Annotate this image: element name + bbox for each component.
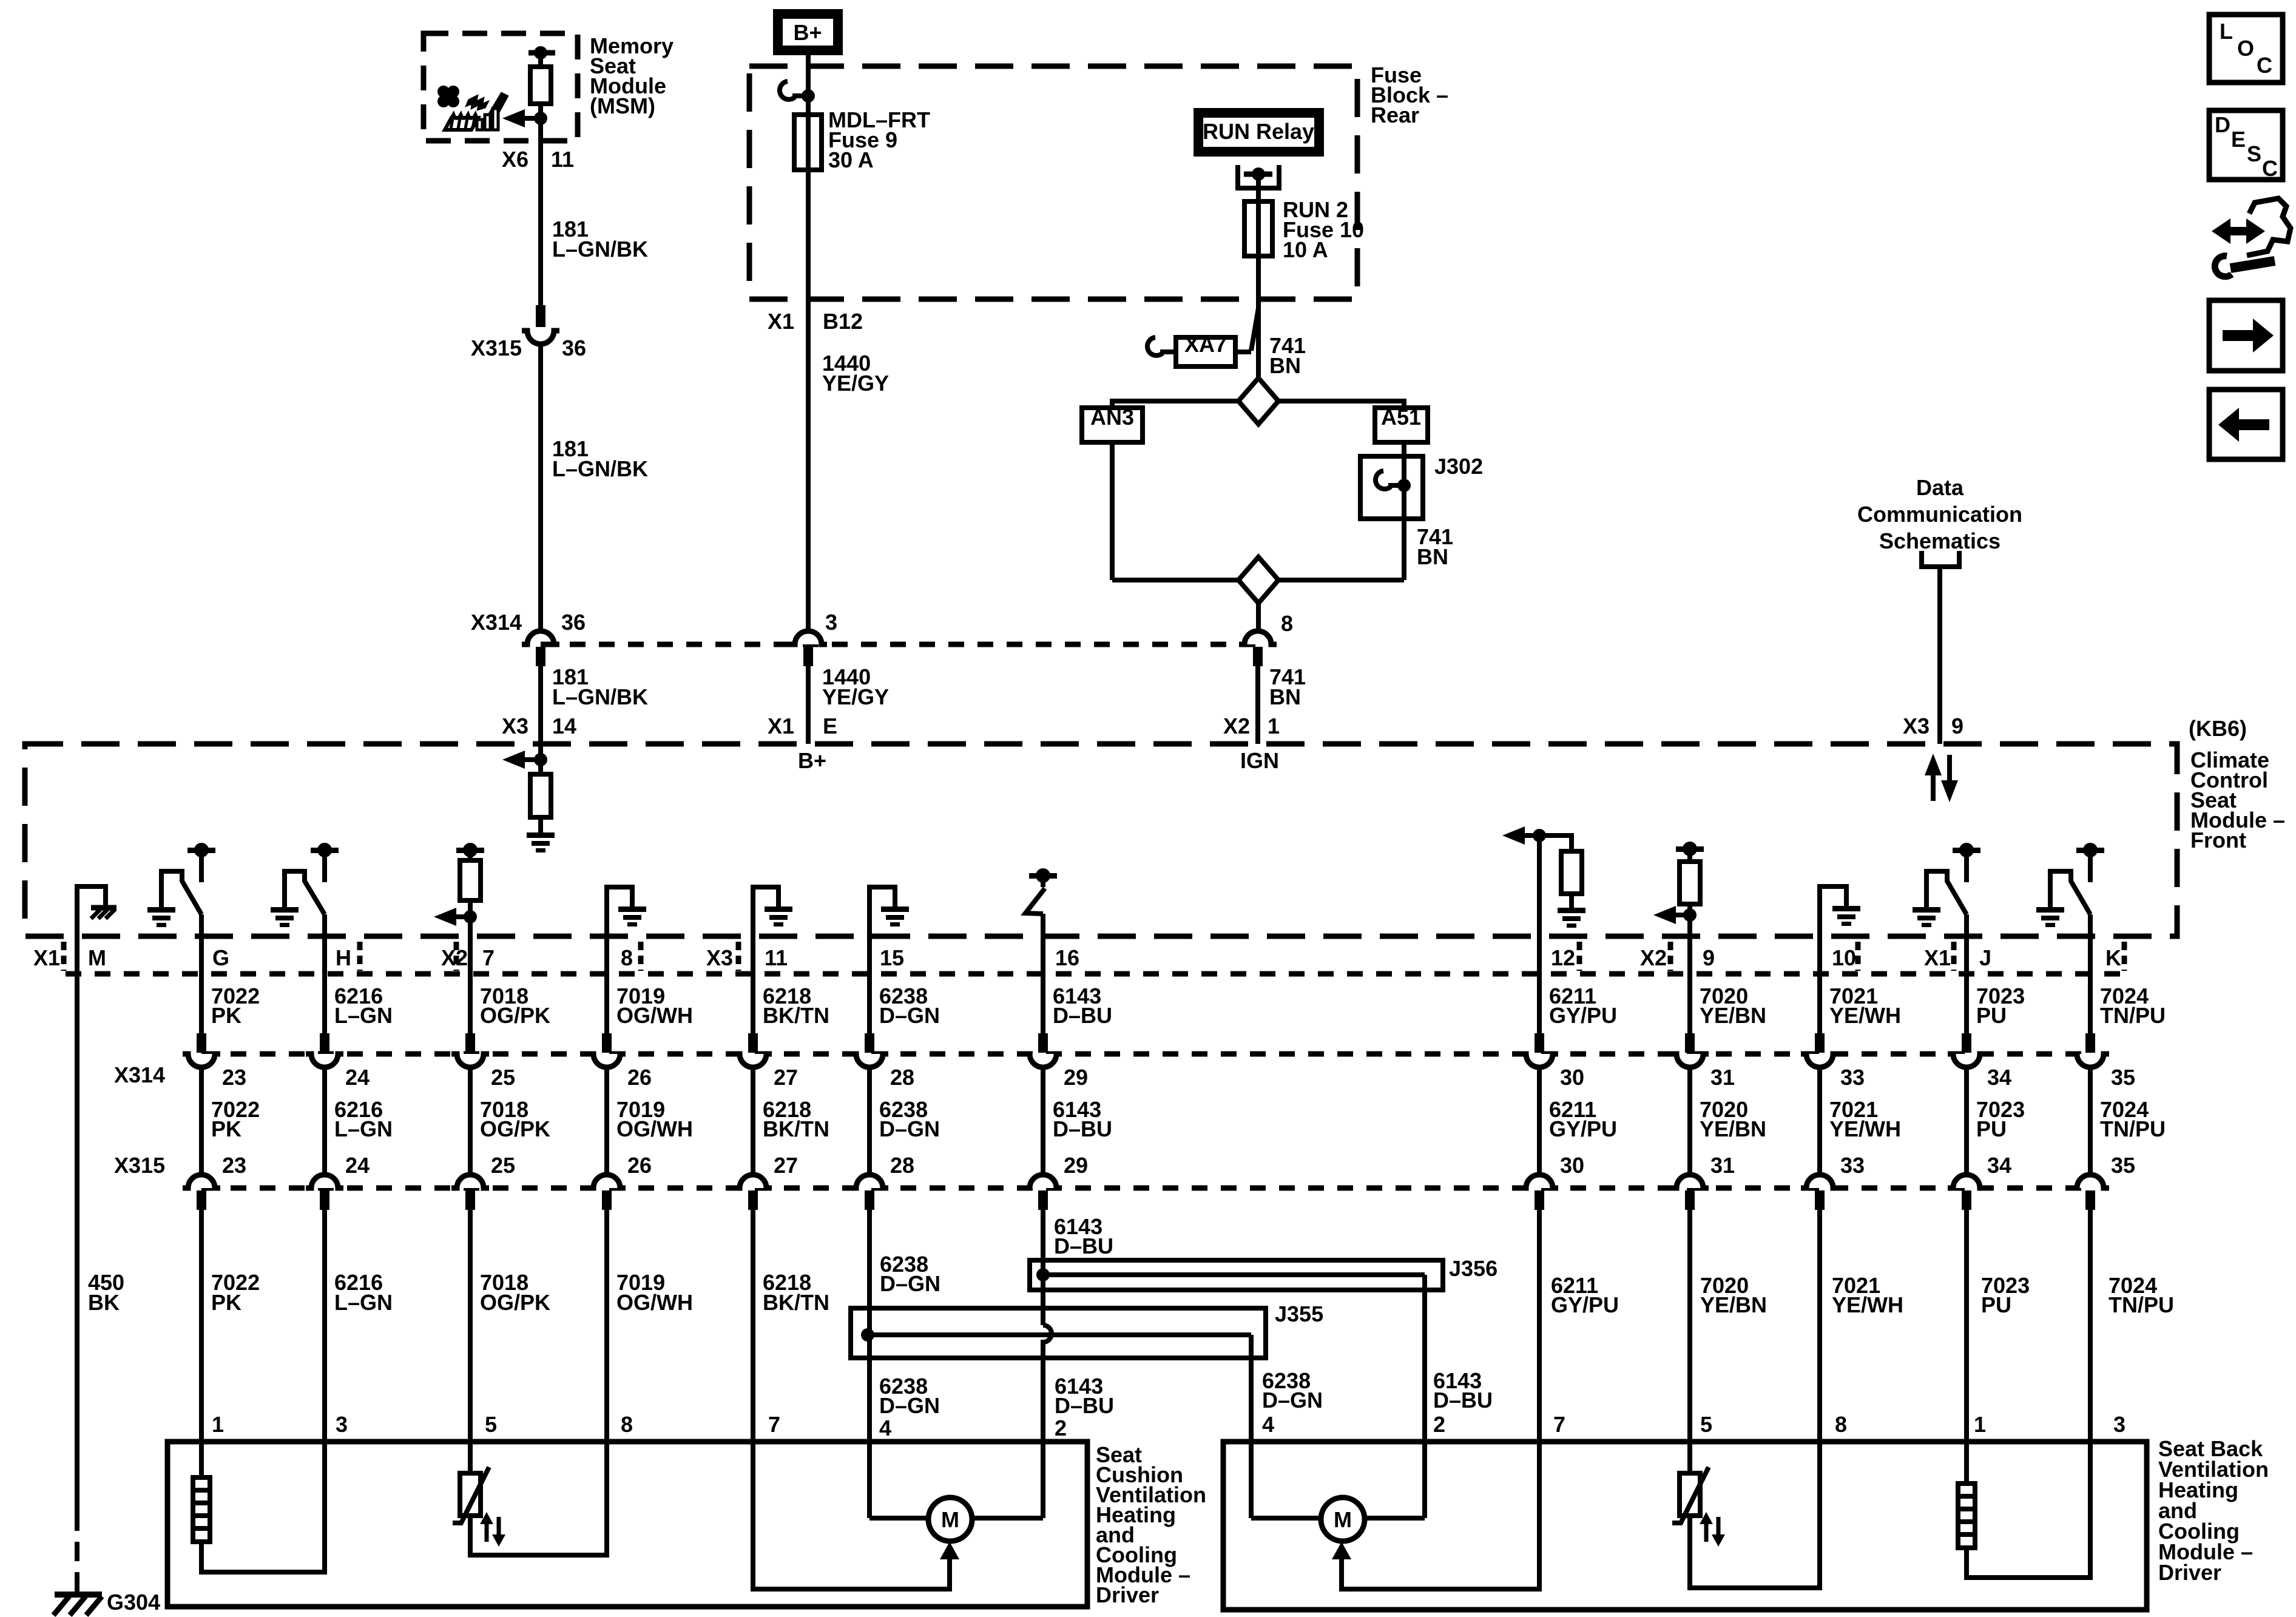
connector X314 pin 31 bbox=[1685, 1033, 1695, 1053]
svg-text:L–GN: L–GN bbox=[334, 1290, 393, 1315]
connector X315 pin 36 (in-line) bbox=[536, 305, 545, 327]
svg-text:35: 35 bbox=[2111, 1065, 2135, 1090]
svg-text:BK/TN: BK/TN bbox=[763, 1116, 829, 1141]
connector X314 pin 28 bbox=[865, 1033, 874, 1053]
svg-text:X314: X314 bbox=[114, 1062, 165, 1087]
svg-text:36: 36 bbox=[562, 336, 586, 360]
internal: pin 9 resistor with output arrow bbox=[1676, 846, 1704, 852]
svg-text:(MSM): (MSM) bbox=[590, 93, 655, 118]
svg-text:3: 3 bbox=[825, 610, 837, 635]
power symbol B+ bbox=[778, 14, 838, 50]
X314 connector row dotted line bbox=[201, 1052, 2090, 1057]
svg-text:L: L bbox=[2220, 19, 2233, 44]
svg-text:X314: X314 bbox=[471, 610, 522, 635]
svg-text:RUN Relay: RUN Relay bbox=[1203, 119, 1314, 144]
internal: pin 10 to ground bbox=[1820, 886, 1846, 936]
svg-text:12: 12 bbox=[1551, 945, 1575, 970]
svg-text:11: 11 bbox=[765, 945, 788, 970]
connector X314 pin 27 bbox=[748, 1033, 758, 1053]
heater element pins 1-3 bbox=[199, 1442, 204, 1477]
svg-text:YE/BN: YE/BN bbox=[1700, 1003, 1766, 1028]
svg-text:35: 35 bbox=[2111, 1153, 2135, 1178]
internal: pin 8 to ground bbox=[607, 887, 632, 936]
svg-text:B+: B+ bbox=[798, 748, 826, 773]
wire 450 BK pin M to G304 bbox=[75, 936, 79, 1511]
svg-text:34: 34 bbox=[1987, 1065, 2011, 1090]
svg-text:X1: X1 bbox=[1924, 945, 1951, 970]
svg-text:8: 8 bbox=[1835, 1412, 1847, 1437]
internal: pin H switch to ground bbox=[271, 907, 299, 913]
internal: pin 12 resistor to ground with arrow bbox=[1533, 829, 1546, 842]
svg-text:BK/TN: BK/TN bbox=[763, 1003, 829, 1028]
svg-text:L–GN/BK: L–GN/BK bbox=[552, 456, 648, 481]
svg-text:X6: X6 bbox=[502, 147, 528, 172]
svg-text:C: C bbox=[2262, 156, 2278, 181]
icon LOC bbox=[2209, 15, 2283, 83]
svg-text:Schematics: Schematics bbox=[1879, 528, 2001, 553]
svg-text:Rear: Rear bbox=[1371, 103, 1419, 127]
internal: pin M wire to chassis ground bbox=[77, 886, 106, 936]
svg-text:26: 26 bbox=[627, 1153, 652, 1178]
svg-text:BN: BN bbox=[1269, 353, 1301, 378]
svg-text:28: 28 bbox=[890, 1065, 914, 1090]
X315 connector row dotted line bbox=[201, 1186, 2090, 1191]
svg-text:D–BU: D–BU bbox=[1054, 1234, 1113, 1258]
svg-text:8: 8 bbox=[621, 945, 633, 970]
ground G304 bbox=[55, 1592, 102, 1598]
svg-text:J355: J355 bbox=[1275, 1301, 1323, 1326]
svg-text:GY/PU: GY/PU bbox=[1551, 1292, 1619, 1317]
svg-text:D–BU: D–BU bbox=[1053, 1116, 1112, 1141]
connector X314 pin 33 bbox=[1815, 1033, 1825, 1053]
internal: pin 7 resistor with output arrow bbox=[456, 848, 484, 853]
svg-text:X1: X1 bbox=[768, 309, 794, 334]
svg-text:D–GN: D–GN bbox=[879, 1116, 940, 1141]
blower motor M (seat cushion) bbox=[928, 1497, 972, 1541]
internal: pin G switch to ground bbox=[147, 907, 175, 913]
svg-text:10 A: 10 A bbox=[1283, 237, 1328, 262]
wire 6238 D-GN from J355 to seat back pin 4 bbox=[1249, 1335, 1254, 1442]
connector A51 bbox=[1375, 408, 1428, 442]
internal: pin 11 to ground bbox=[753, 887, 778, 936]
wire 181 L-GN/BK from X315 to X314 bbox=[538, 344, 543, 631]
connector AN3 bbox=[1082, 408, 1143, 442]
thermistor pins 5-8 (seat back) bbox=[1687, 1442, 1692, 1473]
svg-text:23: 23 bbox=[222, 1065, 246, 1090]
arrow to seat circuits (left) with junction bbox=[534, 112, 547, 125]
svg-text:OG/PK: OG/PK bbox=[480, 1116, 550, 1141]
svg-text:G304: G304 bbox=[107, 1590, 160, 1615]
svg-text:OG/PK: OG/PK bbox=[480, 1003, 550, 1028]
svg-text:OG/WH: OG/WH bbox=[616, 1003, 693, 1028]
svg-text:1: 1 bbox=[1268, 714, 1280, 738]
svg-text:9: 9 bbox=[1951, 714, 1963, 738]
thermistor trend arrows (seat back) bbox=[1704, 1520, 1709, 1542]
svg-text:XA7: XA7 bbox=[1184, 332, 1227, 357]
svg-text:33: 33 bbox=[1840, 1065, 1865, 1090]
svg-text:E: E bbox=[2231, 127, 2246, 152]
X314 connector row dotted line (top) bbox=[541, 642, 1258, 647]
wire 181 L-GN/BK from MSM to X315 bbox=[538, 141, 543, 305]
svg-text:Communication: Communication bbox=[1857, 502, 2022, 527]
svg-text:J302: J302 bbox=[1434, 454, 1483, 479]
svg-text:15: 15 bbox=[880, 945, 904, 970]
svg-text:X2: X2 bbox=[1223, 714, 1250, 738]
connector separator dotted ticks bbox=[61, 942, 67, 971]
resistor inside MSM with top tap bbox=[528, 50, 555, 56]
pin row lower dotted line bbox=[66, 971, 2124, 977]
svg-text:D–BU: D–BU bbox=[1053, 1003, 1112, 1028]
module box: Seat Back Ventilation Heating and Cooling Module - Driver bbox=[1223, 1442, 2147, 1610]
connector X314 pin 34 bbox=[1962, 1033, 1971, 1053]
blower motor M (seat back) bbox=[1321, 1497, 1365, 1541]
svg-text:E: E bbox=[823, 714, 837, 738]
svg-text:4: 4 bbox=[1262, 1412, 1274, 1437]
svg-text:J356: J356 bbox=[1449, 1256, 1497, 1281]
svg-text:30 A: 30 A bbox=[828, 147, 874, 172]
svg-text:10: 10 bbox=[1832, 945, 1856, 970]
svg-text:BK/TN: BK/TN bbox=[763, 1290, 829, 1315]
svg-text:TN/PU: TN/PU bbox=[2109, 1292, 2174, 1317]
svg-text:L–GN: L–GN bbox=[334, 1116, 393, 1141]
fuse holder clip symbol bbox=[780, 81, 808, 100]
svg-text:BN: BN bbox=[1269, 684, 1301, 709]
icon arrow right bbox=[2209, 300, 2283, 371]
svg-text:26: 26 bbox=[627, 1065, 652, 1090]
svg-text:11: 11 bbox=[551, 147, 574, 172]
wire 741 BN J302 to lower diamond bbox=[1402, 519, 1406, 580]
svg-text:X1: X1 bbox=[768, 714, 794, 738]
svg-text:YE/BN: YE/BN bbox=[1700, 1116, 1766, 1141]
connector X314 pin 24 bbox=[320, 1033, 329, 1053]
svg-text:Data: Data bbox=[1916, 475, 1964, 500]
svg-text:D: D bbox=[2215, 112, 2230, 137]
svg-text:GY/PU: GY/PU bbox=[1549, 1003, 1617, 1028]
svg-text:34: 34 bbox=[1987, 1153, 2011, 1178]
svg-text:B12: B12 bbox=[823, 309, 863, 334]
svg-text:OG/PK: OG/PK bbox=[480, 1290, 550, 1315]
splice diamond lower bbox=[1112, 578, 1239, 582]
relay box RUN Relay bbox=[1198, 113, 1319, 152]
svg-text:16: 16 bbox=[1055, 945, 1079, 970]
svg-text:7: 7 bbox=[768, 1412, 780, 1437]
svg-text:O: O bbox=[2237, 36, 2254, 61]
svg-text:AN3: AN3 bbox=[1090, 405, 1134, 430]
svg-text:X1: X1 bbox=[33, 945, 60, 970]
svg-text:J: J bbox=[1979, 945, 1991, 970]
svg-text:14: 14 bbox=[552, 714, 576, 738]
wire 181 L-GN/BK from X314 to climate module bbox=[538, 666, 543, 744]
svg-text:29: 29 bbox=[1064, 1065, 1088, 1090]
wire A51 to J302 bbox=[1402, 442, 1406, 456]
module box: Seat Cushion Ventilation Heating and Cooling Module - Driver bbox=[167, 1442, 1087, 1607]
svg-text:5: 5 bbox=[1700, 1412, 1712, 1437]
svg-text:PU: PU bbox=[1976, 1116, 2007, 1141]
svg-text:K: K bbox=[2105, 945, 2121, 970]
wire diamond to AN3 bbox=[1112, 401, 1238, 408]
svg-text:C: C bbox=[2257, 53, 2272, 78]
internal: pin 16 switch bbox=[1029, 873, 1057, 879]
svg-text:(KB6): (KB6) bbox=[2189, 716, 2247, 741]
splice pack J356 bbox=[1030, 1260, 1443, 1290]
svg-text:D–GN: D–GN bbox=[1262, 1388, 1323, 1413]
internal: pin 15 to ground bbox=[869, 887, 895, 936]
svg-text:8: 8 bbox=[1281, 611, 1293, 636]
connector X314 pin 8 bbox=[1244, 631, 1271, 644]
svg-text:25: 25 bbox=[491, 1153, 515, 1178]
svg-text:X3: X3 bbox=[502, 714, 528, 738]
svg-text:1: 1 bbox=[1974, 1412, 1986, 1437]
internal: pin J switch to ground bbox=[1913, 907, 1940, 913]
svg-text:PU: PU bbox=[1981, 1292, 2011, 1317]
module box: Climate Control Seat Module - Front dashed bbox=[25, 744, 2177, 936]
relay output bracket bbox=[1238, 165, 1279, 188]
svg-text:7: 7 bbox=[1553, 1412, 1565, 1437]
serial data bidirectional arrows bbox=[1931, 772, 1936, 801]
svg-text:M: M bbox=[1334, 1507, 1352, 1532]
splice pack J355 bbox=[851, 1308, 1266, 1358]
svg-text:29: 29 bbox=[1064, 1153, 1088, 1178]
svg-text:Front: Front bbox=[2190, 828, 2246, 852]
wire 6143 D-BU hop over J355 wire bbox=[1043, 1325, 1052, 1342]
svg-text:2: 2 bbox=[1433, 1412, 1445, 1437]
svg-text:4: 4 bbox=[879, 1416, 891, 1440]
svg-text:33: 33 bbox=[1840, 1153, 1865, 1178]
svg-text:TN/PU: TN/PU bbox=[2100, 1003, 2166, 1028]
svg-text:S: S bbox=[2247, 141, 2261, 166]
svg-text:YE/WH: YE/WH bbox=[1829, 1116, 1901, 1141]
svg-text:YE/WH: YE/WH bbox=[1829, 1003, 1901, 1028]
svg-text:PU: PU bbox=[1976, 1003, 2007, 1028]
svg-text:D–BU: D–BU bbox=[1055, 1393, 1114, 1418]
svg-text:X315: X315 bbox=[114, 1153, 165, 1178]
svg-text:X3: X3 bbox=[706, 945, 733, 970]
connector J302 bbox=[1360, 456, 1423, 519]
svg-text:1: 1 bbox=[212, 1412, 224, 1437]
connector X314 pin 25 bbox=[465, 1033, 475, 1053]
svg-text:5: 5 bbox=[485, 1412, 497, 1437]
svg-text:3: 3 bbox=[336, 1412, 348, 1437]
connector X314 pin 35 bbox=[2085, 1033, 2095, 1053]
wire AN3 to lower diamond bbox=[1110, 442, 1115, 580]
svg-text:24: 24 bbox=[345, 1153, 370, 1178]
connector X314 pin 36 bbox=[527, 631, 554, 644]
module box: Memory Seat Module (MSM) dashed bbox=[424, 33, 578, 141]
svg-text:7: 7 bbox=[482, 945, 495, 970]
motor control arrow from pin 7 bbox=[753, 1442, 950, 1589]
heater element pins 1-3 (seat back) bbox=[1964, 1442, 1969, 1484]
connector X314 pin 30 bbox=[1535, 1033, 1544, 1053]
svg-text:3: 3 bbox=[2113, 1412, 2125, 1437]
svg-text:X2: X2 bbox=[1640, 945, 1667, 970]
svg-text:PK: PK bbox=[211, 1116, 241, 1141]
svg-text:D–GN: D–GN bbox=[879, 1393, 940, 1418]
svg-text:D–BU: D–BU bbox=[1433, 1388, 1493, 1413]
svg-text:X3: X3 bbox=[1903, 714, 1930, 738]
svg-text:36: 36 bbox=[561, 610, 586, 635]
connector X314 pin 29 bbox=[1038, 1033, 1048, 1053]
svg-text:27: 27 bbox=[774, 1065, 798, 1090]
wire 1440 YE/GY fuse 9 to X314 pin 3 bbox=[806, 170, 811, 631]
internal: pin X3-14 pull-up resistor to ground with arrow bbox=[538, 744, 543, 774]
svg-text:9: 9 bbox=[1703, 945, 1715, 970]
svg-text:M: M bbox=[941, 1507, 959, 1532]
wire 6143 D-BU from J356 to seat back pin 2 bbox=[1422, 1275, 1427, 1442]
thermistor trend arrows bbox=[485, 1520, 489, 1542]
wire B+ to fuse 9 bbox=[806, 55, 811, 115]
svg-text:OG/WH: OG/WH bbox=[616, 1290, 693, 1315]
wire serial data to climate module X3 pin 9 bbox=[1937, 567, 1942, 744]
svg-text:A51: A51 bbox=[1381, 405, 1421, 430]
svg-text:31: 31 bbox=[1710, 1065, 1735, 1090]
svg-text:YE/WH: YE/WH bbox=[1832, 1292, 1903, 1317]
svg-text:M: M bbox=[88, 945, 106, 970]
icon DESC bbox=[2209, 110, 2283, 180]
svg-text:L–GN/BK: L–GN/BK bbox=[552, 684, 648, 709]
svg-text:YE/GY: YE/GY bbox=[822, 371, 889, 396]
svg-text:YE/GY: YE/GY bbox=[822, 684, 889, 709]
connector X314 pin 26 bbox=[602, 1033, 612, 1053]
svg-text:8: 8 bbox=[621, 1412, 633, 1437]
svg-text:YE/BN: YE/BN bbox=[1700, 1292, 1767, 1317]
svg-text:31: 31 bbox=[1710, 1153, 1735, 1178]
motor control arrow from pin 7 (seat back) bbox=[1342, 1442, 1539, 1589]
connector X314 pin 3 bbox=[795, 631, 822, 644]
svg-text:TN/PU: TN/PU bbox=[2100, 1116, 2166, 1141]
thermistor pins 5-8 bbox=[468, 1442, 473, 1473]
svg-text:D–GN: D–GN bbox=[880, 1271, 940, 1296]
wire relay to fuse 10 bbox=[1256, 174, 1261, 201]
svg-text:2: 2 bbox=[1055, 1416, 1067, 1440]
svg-text:L–GN/BK: L–GN/BK bbox=[552, 237, 648, 262]
svg-text:Driver: Driver bbox=[2158, 1560, 2221, 1585]
svg-text:30: 30 bbox=[1560, 1065, 1584, 1090]
svg-text:BK: BK bbox=[88, 1290, 120, 1315]
svg-text:X315: X315 bbox=[471, 336, 522, 360]
splice diamond upper bbox=[1238, 378, 1278, 424]
wire 1440 YE/GY to climate module X1 pin E bbox=[806, 666, 811, 744]
svg-text:28: 28 bbox=[890, 1153, 914, 1178]
svg-text:G: G bbox=[212, 945, 229, 970]
svg-text:23: 23 bbox=[222, 1153, 246, 1178]
fuse MDL-FRT Fuse 9 30 A bbox=[794, 115, 822, 170]
svg-text:L–GN: L–GN bbox=[334, 1003, 393, 1028]
wire 741 BN fuse 10 to splice diamond bbox=[1256, 256, 1261, 378]
off-page connector bracket bbox=[1922, 551, 1959, 567]
internal: pin K switch to ground bbox=[2036, 907, 2064, 913]
svg-text:GY/PU: GY/PU bbox=[1549, 1116, 1617, 1141]
wire diamond to A51 bbox=[1278, 401, 1404, 408]
svg-text:30: 30 bbox=[1560, 1153, 1584, 1178]
svg-text:D–GN: D–GN bbox=[879, 1003, 940, 1028]
connector X314 pin 23 bbox=[197, 1033, 206, 1053]
svg-text:OG/WH: OG/WH bbox=[616, 1116, 693, 1141]
icon arrow left bbox=[2209, 390, 2283, 459]
wire lower diamond to X314 pin 8 bbox=[1256, 603, 1261, 631]
fuse RUN 2 Fuse 10 10 A bbox=[1244, 201, 1272, 256]
svg-text:27: 27 bbox=[774, 1153, 798, 1178]
svg-text:24: 24 bbox=[345, 1065, 370, 1090]
svg-text:IGN: IGN bbox=[1240, 748, 1279, 773]
svg-text:B+: B+ bbox=[793, 20, 822, 45]
svg-text:H: H bbox=[336, 945, 351, 970]
svg-text:25: 25 bbox=[491, 1065, 515, 1090]
svg-text:BN: BN bbox=[1417, 544, 1448, 569]
svg-text:Driver: Driver bbox=[1096, 1582, 1159, 1607]
icon diagnostic (arrows and wrench) bbox=[2228, 227, 2249, 235]
svg-text:PK: PK bbox=[211, 1290, 241, 1315]
svg-text:PK: PK bbox=[211, 1003, 241, 1028]
icon: seat ventilation (fan + seat + bars) inside MSM bbox=[437, 86, 508, 123]
connector XA7 bbox=[1176, 337, 1235, 366]
module box: Fuse Block - Rear dashed bbox=[749, 66, 1357, 299]
wire 741 BN to climate module X2 pin 1 bbox=[1255, 666, 1260, 744]
